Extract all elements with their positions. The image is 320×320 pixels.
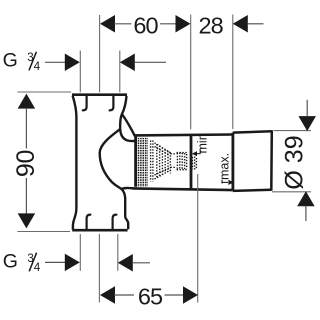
svg-text:max.: max. (218, 153, 232, 180)
thread arrow bottom (points left) (118, 254, 133, 271)
flange line (134, 136, 137, 187)
min arrow (points left at line B) (192, 151, 197, 156)
extension stub top pipe left (79, 51, 81, 93)
leader arrow G3/4 top (points right) (65, 54, 80, 72)
diameter 39 arrow down (298, 116, 316, 131)
cap right edge (270, 130, 273, 191)
teardrop bottom curve (120, 129, 135, 141)
svg-text:Ø 39: Ø 39 (280, 135, 308, 189)
svg-text:4: 4 (34, 60, 41, 73)
thread arrow top tail (135, 61, 166, 63)
thread arrow bottom tail (133, 262, 150, 264)
thread hook bottom right (113, 215, 117, 229)
dimension 90 bottom extension line (18, 231, 71, 233)
dimension 28 arrow right (outside) (233, 15, 248, 33)
dimension 60 arrow right (176, 15, 191, 33)
thread arrow top (points left) (120, 54, 135, 72)
cap top edge (233, 131, 272, 132)
dimension 90 top extension line (18, 91, 72, 93)
dimension 65 line right segment (165, 294, 184, 296)
extension line B (min plaster line, top) (190, 15, 192, 130)
dimension 60 line left segment (114, 23, 131, 25)
dimension 60 arrow left (100, 15, 115, 33)
extension stub top pipe right (119, 51, 121, 93)
body top edge (72, 93, 127, 96)
thread hook top right (110, 96, 114, 110)
dimension 65 line left segment (114, 294, 134, 296)
dimension 65 arrow left (100, 286, 115, 304)
extension line C (max plaster line, top) (232, 15, 234, 130)
extension stub bottom pipe right (117, 234, 119, 271)
body bottom edge (72, 229, 127, 232)
dimension 65 right extension line (197, 174, 199, 303)
diameter 39 top extension line (274, 130, 312, 132)
division line B (190, 135, 193, 190)
diameter 39 bottom extension line (272, 191, 311, 193)
dimension 90 arrow down (18, 213, 36, 228)
diameter 39 upper tail (306, 100, 308, 116)
extension line A (body axis, top) (99, 15, 101, 92)
cap bottom edge (233, 190, 271, 191)
diameter 39 arrow up (297, 191, 315, 206)
body right edge and waist (100, 96, 129, 229)
extension stub bottom pipe left (79, 234, 81, 271)
dimension 28 tail line (248, 23, 264, 25)
teardrop right diagonal (122, 114, 135, 136)
svg-text:G: G (3, 50, 18, 72)
thread hook top left (83, 96, 87, 110)
svg-text:90: 90 (12, 150, 40, 177)
max leader line (222, 181, 228, 183)
svg-text:28: 28 (199, 13, 224, 39)
diameter 39 lower tail (305, 206, 307, 221)
svg-text:min: min (196, 133, 210, 153)
cylinder bottom edge (133, 188, 233, 190)
cylinder top edge (134, 133, 233, 136)
dimension 90 line lower (25, 178, 27, 214)
min leader tick (199, 150, 201, 154)
max leader tick (221, 180, 223, 184)
max arrow (points right at line C) (228, 180, 233, 185)
dimension 90 line upper (25, 108, 27, 149)
svg-text:4: 4 (34, 261, 41, 274)
dimension 65 arrow right (183, 286, 198, 304)
dotted cartridge group (151, 141, 197, 182)
svg-text:G: G (3, 251, 18, 273)
leader line G3/4 bottom (45, 261, 66, 263)
min leader line (196, 153, 200, 155)
dimension 60 line right segment (160, 23, 176, 25)
thread hook bottom left (87, 215, 91, 229)
dimension 90 arrow up (18, 94, 36, 109)
dimension 65 left extension line (98, 234, 100, 303)
fillet waist to cylinder underside (122, 188, 134, 189)
stipple band (knurled ring) (138, 138, 148, 187)
svg-text:65: 65 (138, 283, 163, 309)
leader arrow G3/4 bottom (points right) (65, 254, 80, 272)
division line C (231, 133, 234, 191)
body left edge (73, 96, 77, 230)
svg-text:60: 60 (133, 13, 158, 39)
leader line G3/4 top (45, 61, 66, 63)
